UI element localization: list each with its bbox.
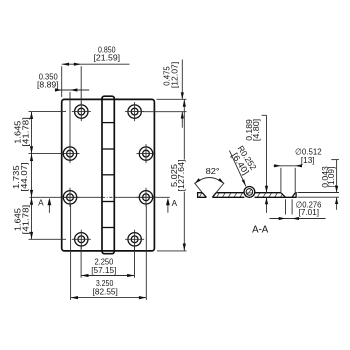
dimension 0.475 [12.07] right top, rotated <box>143 60 187 128</box>
section arrow A left <box>38 198 51 213</box>
countersink walls right hole <box>281 193 286 198</box>
hatching of leaf cross-sections <box>191 189 297 201</box>
screw hole row3 left <box>61 188 80 207</box>
section line A-A right segment <box>114 196 169 198</box>
screw hole row2 right <box>137 144 156 163</box>
dimension 0.189 [4.80] thickness, rotated <box>244 115 268 213</box>
section line A-A dash-dot through barrel <box>102 196 115 198</box>
countersink walls left hole <box>202 193 206 198</box>
dimension 0.350 [8.89] <box>37 71 89 146</box>
knuckle joint line 3 <box>102 174 114 176</box>
svg-text:[4.80]: [4.80] <box>251 119 261 141</box>
dimension dia 0.512 [13] countersink <box>274 146 322 192</box>
knuckle joint line 4 <box>102 201 114 203</box>
knuckle joint line 2 <box>102 148 114 150</box>
svg-text:A: A <box>38 199 44 208</box>
svg-text:[1.09]: [1.09] <box>326 167 336 188</box>
dimension 2.250 [57.15] bottom <box>81 247 134 278</box>
svg-text:[7.01]: [7.01] <box>299 207 320 217</box>
knuckle joint line 1 <box>102 122 114 124</box>
dimension 0.850 [21.59] top <box>62 44 130 104</box>
screw hole row1 left <box>72 102 91 121</box>
dimension 3.250 [82.55] bottom <box>71 205 147 300</box>
svg-text:82°: 82° <box>206 166 220 176</box>
svg-text:[44.07]: [44.07] <box>19 163 29 192</box>
svg-text:[41.78]: [41.78] <box>21 205 31 235</box>
angular dimension 82 deg <box>194 166 224 193</box>
screw hole row2 left <box>61 144 80 163</box>
right leaf cross-section outline <box>255 193 297 198</box>
dimension 1.645 [41.78] upper left, rotated <box>13 112 66 240</box>
hinge leaf plate outline (front view) <box>62 99 155 251</box>
dimension 1.645 [41.78] lower left, rotated <box>13 197 66 239</box>
screw hole row4 right <box>125 230 144 249</box>
svg-text:[82.55]: [82.55] <box>93 287 118 297</box>
screw hole row4 left <box>72 230 91 249</box>
svg-text:[21.59]: [21.59] <box>94 52 121 62</box>
svg-text:A: A <box>172 199 178 208</box>
hinge barrel <box>102 96 114 254</box>
knuckle / pin circle <box>244 187 255 198</box>
svg-text:[13]: [13] <box>301 155 315 165</box>
dimension 1.735 [44.07] middle left, rotated <box>11 154 33 198</box>
section line A-A left segment <box>30 196 102 198</box>
svg-text:[127.64]: [127.64] <box>176 160 186 192</box>
svg-text:[8.89]: [8.89] <box>37 80 59 90</box>
screw hole row3 right <box>137 188 156 207</box>
svg-text:[12.07]: [12.07] <box>170 62 180 88</box>
svg-text:A-A: A-A <box>252 224 269 235</box>
dimension dia 0.276 [7.01] through hole <box>270 199 326 220</box>
svg-text:[41.78]: [41.78] <box>21 117 31 147</box>
radius leader R0.252 [6.40] <box>229 144 258 186</box>
dimension 5.025 [127.64] right, rotated <box>157 99 187 251</box>
screw hole row1 right <box>125 102 144 121</box>
dimension 0.043 [1.09] edge thickness, rotated <box>298 160 340 210</box>
knuckle joint line 5 <box>102 227 114 229</box>
section arrow A right <box>166 198 178 213</box>
svg-text:[57.15]: [57.15] <box>91 265 116 275</box>
left leaf cross-section outline <box>198 193 245 198</box>
